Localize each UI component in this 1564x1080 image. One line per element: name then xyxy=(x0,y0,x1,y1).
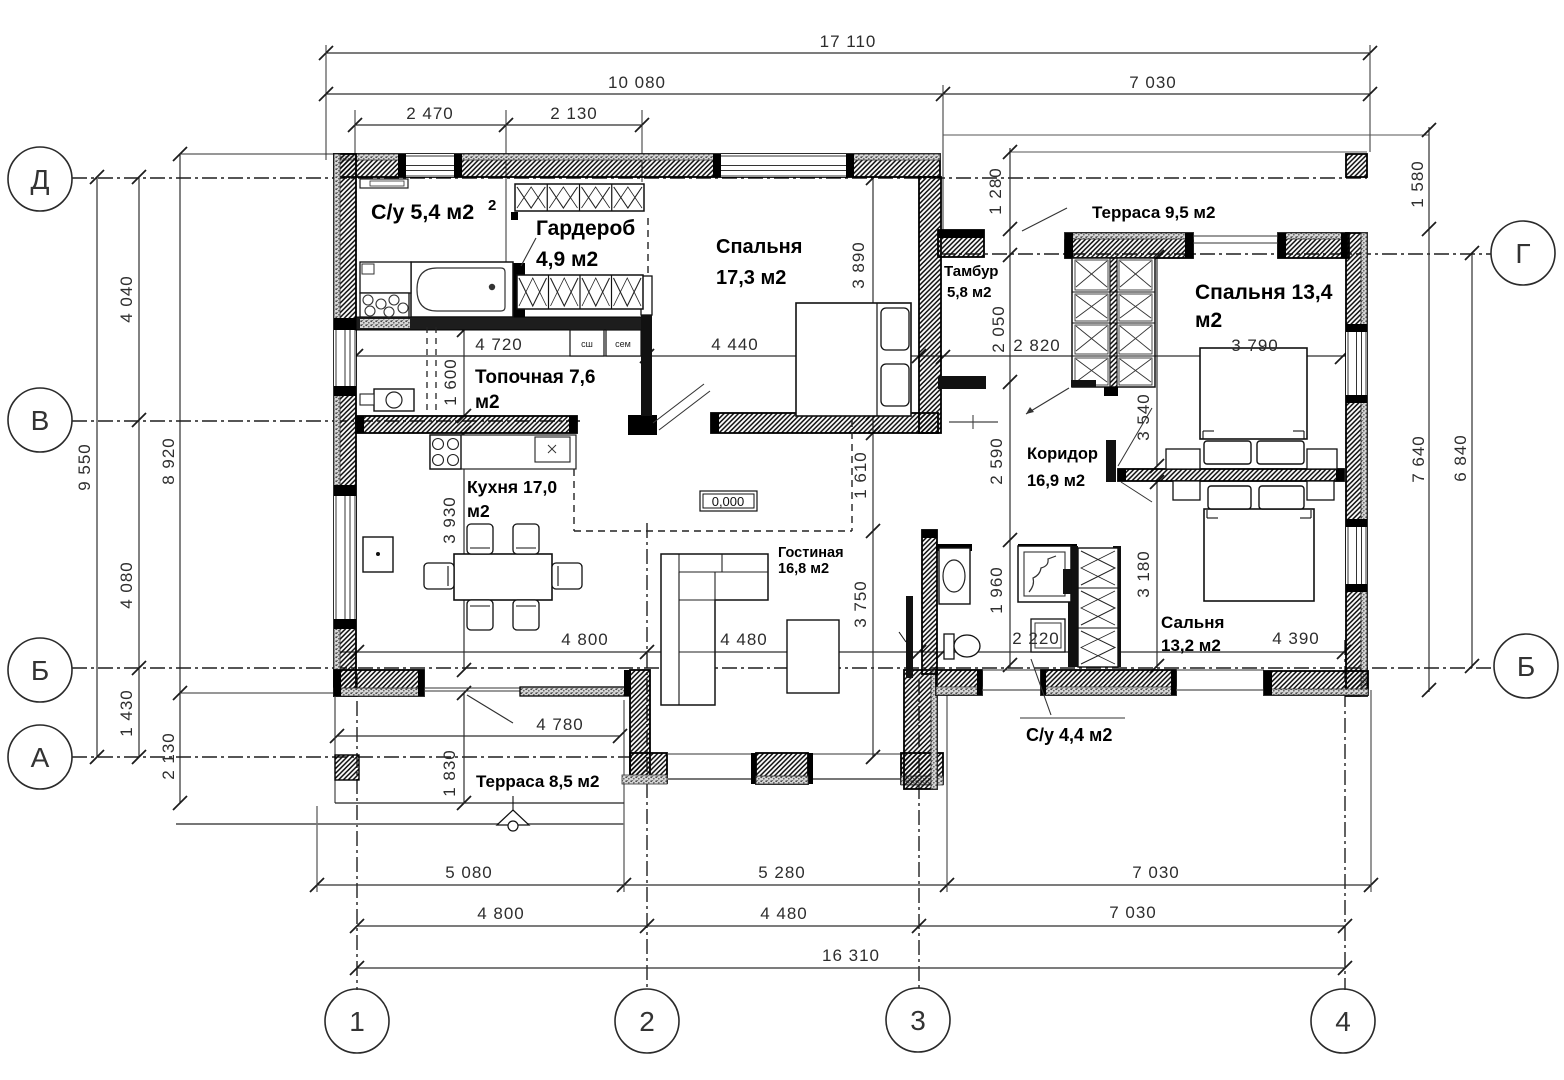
door pier at bedroom 17.3 door xyxy=(628,415,657,435)
dimension 4 800 / 4 480 / 2 220 / 4 390 (y=652) xyxy=(340,651,1346,653)
living-room east wall xyxy=(904,670,937,789)
svg-text:1: 1 xyxy=(349,1006,365,1037)
south wall of SU5.4/garderob (dark band) xyxy=(356,317,647,330)
toilet WC4.4 xyxy=(944,634,954,659)
svg-text:Спальня: Спальня xyxy=(716,236,802,258)
svg-text:2: 2 xyxy=(488,197,496,214)
svg-text:5 280: 5 280 xyxy=(758,863,806,882)
svg-text:4 040: 4 040 xyxy=(117,275,136,323)
living-room south wall left corner xyxy=(630,753,667,783)
axis line 4 (vertical) xyxy=(1344,640,1346,990)
bedside table right (13.4) xyxy=(1307,449,1337,469)
svg-text:7 030: 7 030 xyxy=(1109,903,1157,922)
svg-text:1 600: 1 600 xyxy=(441,358,460,406)
bathtub xyxy=(411,262,513,317)
axis line A (horizontal) xyxy=(72,756,632,758)
svg-text:Б: Б xyxy=(31,655,49,686)
garderob east dashed boundary xyxy=(647,218,649,276)
svg-text:4 480: 4 480 xyxy=(760,904,808,923)
svg-text:4 780: 4 780 xyxy=(536,715,584,734)
svg-text:2 590: 2 590 xyxy=(987,437,1006,485)
dimension 3 890 / 1 610 / 3 750 (x=873) xyxy=(872,178,874,757)
right exterior wall (axis 4) xyxy=(1346,233,1367,696)
cupboard box s-sh xyxy=(570,330,604,356)
bedroom 17.3 south wall (axis V) xyxy=(711,413,938,433)
bottom wall right building segment 2 xyxy=(1041,670,1176,695)
shelf under SU window xyxy=(360,179,408,188)
fridge xyxy=(363,537,393,572)
door swing near shaft xyxy=(1026,388,1069,414)
tambour north wall xyxy=(938,230,984,257)
axis circle B (right) xyxy=(1494,634,1558,698)
dimension 8 920 / 2 130 (left) xyxy=(179,154,181,803)
svg-text:Терраса 9,5 м2: Терраса 9,5 м2 xyxy=(1092,203,1215,222)
svg-text:9 550: 9 550 xyxy=(75,443,94,491)
top exterior wall (axis D) xyxy=(334,154,940,177)
svg-text:6 840: 6 840 xyxy=(1451,434,1470,482)
svg-text:Топочная 7,6: Топочная 7,6 xyxy=(475,367,595,388)
WC 4.4 north wall xyxy=(936,544,972,551)
svg-text:3 890: 3 890 xyxy=(849,241,868,289)
boiler xyxy=(374,389,414,411)
svg-text:2 130: 2 130 xyxy=(550,104,598,123)
svg-text:сем: сем xyxy=(615,339,631,349)
right exterior wall top corner block xyxy=(1346,154,1367,177)
svg-text:1 580: 1 580 xyxy=(1408,160,1427,208)
svg-text:1 960: 1 960 xyxy=(987,566,1006,614)
kitchen/boiler north wall (axis V) xyxy=(356,416,577,433)
chair 3 xyxy=(467,600,493,630)
svg-text:3 540: 3 540 xyxy=(1134,393,1153,441)
dimension 4 040 / 4 080 / 1 430 (left) xyxy=(138,177,140,757)
shower cabin xyxy=(1018,546,1071,602)
kitchen sink xyxy=(535,437,570,462)
bed bedroom 17.3 xyxy=(796,303,911,416)
bedside table left (salnya) xyxy=(1173,481,1200,500)
svg-text:Спальня 13,4: Спальня 13,4 xyxy=(1195,281,1333,304)
svg-text:1 430: 1 430 xyxy=(117,689,136,737)
dimension 4 720 / 4 440 / 2 820 / 3 790 (y=356) xyxy=(340,355,1346,357)
terrace 8.5 outline xyxy=(334,696,336,803)
roof overhang lines (top right) xyxy=(943,134,1429,136)
svg-text:Терраса 8,5 м2: Терраса 8,5 м2 xyxy=(476,772,599,791)
axis circle V (left) xyxy=(8,388,72,452)
svg-text:3: 3 xyxy=(910,1005,926,1036)
washbasin cabinet SU5.4 xyxy=(360,262,411,293)
svg-text:А: А xyxy=(31,742,50,773)
svg-text:4 440: 4 440 xyxy=(711,335,759,354)
svg-text:1 830: 1 830 xyxy=(440,749,459,797)
left exterior wall (axis 1) xyxy=(334,154,356,696)
bedroom 17.3 east wall xyxy=(919,177,941,433)
svg-text:Кухня 17,0: Кухня 17,0 xyxy=(467,477,557,497)
axis line 3 (vertical) xyxy=(918,680,920,990)
dimension 1 280 / 2 050 / 2 590 / 1 960 (x=1010) xyxy=(1009,148,1011,668)
corridor/bedroom partition wall xyxy=(1118,469,1344,481)
dimension 4 780 with leader xyxy=(337,735,620,737)
leader garderob xyxy=(521,238,536,266)
chair 2 xyxy=(513,524,539,554)
living-room south wall pier xyxy=(756,753,808,784)
dimension 9 550 (left) xyxy=(96,177,98,757)
bottom wall kitchen (axis B) xyxy=(334,670,424,696)
bottom wall right building segment 3 xyxy=(1264,671,1368,695)
axis line G (horizontal) xyxy=(940,253,1491,255)
dimension line 2 470 / 2 130 xyxy=(355,124,642,126)
wall between living room and WC (TV wall) xyxy=(922,530,937,674)
svg-text:4 800: 4 800 xyxy=(561,630,609,649)
level mark 0.000 xyxy=(700,491,757,511)
chair 6 xyxy=(552,563,582,589)
svg-text:С/у 4,4 м2: С/у 4,4 м2 xyxy=(1026,725,1112,745)
window in bottom wall (WC) xyxy=(982,669,1041,671)
svg-text:5 080: 5 080 xyxy=(445,863,493,882)
coffee table xyxy=(787,620,839,693)
svg-text:17,3 м2: 17,3 м2 xyxy=(716,267,786,289)
WC 4.4 east wall xyxy=(1068,546,1078,667)
svg-text:7 030: 7 030 xyxy=(1132,863,1180,882)
svg-text:4 720: 4 720 xyxy=(475,335,523,354)
chimney dashed lines xyxy=(426,327,428,411)
corridor wardrobe zigzag xyxy=(1078,548,1118,667)
axis line D (horizontal) xyxy=(72,177,1367,179)
svg-text:4 800: 4 800 xyxy=(477,904,525,923)
garderob east wall xyxy=(641,276,652,315)
svg-text:Гостиная: Гостиная xyxy=(778,545,844,561)
leader terrace 9.5 xyxy=(1022,208,1067,231)
ventilation shaft with cross bracing xyxy=(1072,258,1155,387)
svg-text:2 050: 2 050 xyxy=(989,305,1008,353)
dimension 4 800 / 4 480 / 7 030 (bottom row2) xyxy=(357,925,1345,927)
salnya west wall xyxy=(1113,546,1121,667)
bedside table right (salnya) xyxy=(1307,481,1334,500)
svg-text:3 930: 3 930 xyxy=(440,496,459,544)
svg-text:2 130: 2 130 xyxy=(159,732,178,780)
terrace door threshold xyxy=(424,687,520,689)
svg-text:Гардероб: Гардероб xyxy=(536,217,635,240)
terrace pillar xyxy=(335,755,359,780)
svg-text:4 390: 4 390 xyxy=(1272,629,1320,648)
dimension 3 540 / 3 180 (x=1157) xyxy=(1156,257,1158,466)
cupboard box sem xyxy=(606,330,641,356)
axis circle 3 (bottom) xyxy=(886,988,950,1052)
terrace step wall xyxy=(520,687,630,696)
svg-text:1 610: 1 610 xyxy=(851,451,870,499)
svg-text:17 110: 17 110 xyxy=(820,32,877,51)
svg-text:4 080: 4 080 xyxy=(117,561,136,609)
svg-text:3 180: 3 180 xyxy=(1134,550,1153,598)
living-room south window B xyxy=(813,753,901,755)
dimension 1 580 / 7 640 (x=1429) xyxy=(1428,127,1430,692)
terrace south wall segment 2 xyxy=(1278,233,1349,258)
chair 5 xyxy=(424,563,454,589)
svg-text:Сальня: Сальня xyxy=(1161,613,1224,632)
dining table xyxy=(454,554,552,600)
svg-text:16,9 м2: 16,9 м2 xyxy=(1027,472,1085,490)
svg-text:16,8 м2: 16,8 м2 xyxy=(778,561,829,577)
axis circle 2 (bottom) xyxy=(615,989,679,1053)
axis circle A (left) xyxy=(8,725,72,789)
svg-text:4: 4 xyxy=(1335,1006,1351,1037)
dimension 5 080 / 5 280 / 7 030 (bottom) xyxy=(317,884,1371,886)
svg-text:С/у 5,4 м2: С/у 5,4 м2 xyxy=(371,200,474,224)
axis circle 1 (bottom) xyxy=(325,989,389,1053)
svg-text:Г: Г xyxy=(1515,238,1530,269)
tambour door leaf mark xyxy=(949,421,998,423)
living-room west wall xyxy=(630,670,650,783)
terrace south wall segment 1 xyxy=(1065,233,1193,258)
living-room south window A xyxy=(667,753,756,755)
svg-text:Д: Д xyxy=(31,164,50,195)
svg-text:10 080: 10 080 xyxy=(608,73,666,92)
bed bedroom 13.4 xyxy=(1200,348,1307,439)
terrace entrance flag xyxy=(497,810,529,825)
tambour south wall xyxy=(938,376,986,389)
svg-text:В: В xyxy=(31,405,50,436)
svg-text:2 220: 2 220 xyxy=(1012,629,1060,648)
dimension 1 600 / 3 930 / 1 830 (x=464) xyxy=(463,320,465,416)
cabinet WC4.4 xyxy=(1031,619,1065,652)
svg-text:3 790: 3 790 xyxy=(1231,336,1279,355)
bottom wall right building segment 1 xyxy=(936,670,982,695)
axis circle G (right) xyxy=(1491,221,1555,285)
wall between SU 5.4 and garderob xyxy=(511,212,518,220)
TV panel xyxy=(906,596,913,678)
chair 1 xyxy=(467,524,493,554)
dimension line 17 110 (top) xyxy=(326,52,1370,54)
washbasin WC4.4 xyxy=(939,548,970,604)
window in bottom wall (salnya) xyxy=(1176,669,1264,671)
bed salnya 13.2 xyxy=(1204,509,1314,601)
dimension 16 310 (bottom) xyxy=(357,967,1345,969)
corridor door leaf xyxy=(1106,440,1116,482)
svg-text:м2: м2 xyxy=(1195,309,1222,332)
bedroom 17.3 door swing xyxy=(653,384,704,423)
svg-text:4 480: 4 480 xyxy=(720,630,768,649)
axis line V (horizontal) xyxy=(72,420,580,422)
svg-text:сш: сш xyxy=(581,339,593,349)
svg-text:2 470: 2 470 xyxy=(406,104,454,123)
kitchen counter xyxy=(430,435,576,469)
svg-text:м2: м2 xyxy=(467,501,490,521)
svg-text:5,8 м2: 5,8 м2 xyxy=(947,284,991,301)
axis line 1 (vertical) xyxy=(356,675,358,990)
bedside table left (13.4) xyxy=(1166,449,1200,469)
corner sofa xyxy=(661,554,768,705)
axis circle D (left) xyxy=(8,147,72,211)
svg-text:16 310: 16 310 xyxy=(822,946,880,965)
axis circle B (left) xyxy=(8,638,72,702)
chair 4 xyxy=(513,600,539,630)
svg-text:7 030: 7 030 xyxy=(1129,73,1177,92)
open plan dashed boundary xyxy=(573,469,575,531)
wardrobe closet bottom (garderob) xyxy=(517,275,643,309)
terrace opening lines xyxy=(1193,235,1278,237)
wardrobe closet top (garderob) xyxy=(515,184,644,211)
svg-text:13,2 м2: 13,2 м2 xyxy=(1161,636,1221,655)
svg-text:м2: м2 xyxy=(475,392,500,413)
svg-text:8 920: 8 920 xyxy=(159,437,178,485)
kitchen stove xyxy=(430,435,461,469)
svg-text:4,9 м2: 4,9 м2 xyxy=(536,248,598,271)
axis line 2 (vertical) xyxy=(646,523,648,990)
living-room south wall right corner xyxy=(901,753,943,784)
svg-text:Б: Б xyxy=(1517,651,1535,682)
svg-text:0,000: 0,000 xyxy=(712,494,745,509)
leader WC 4.4 xyxy=(1031,659,1051,715)
svg-text:Тамбур: Тамбур xyxy=(944,263,998,280)
svg-text:1 280: 1 280 xyxy=(986,167,1005,215)
dimension 6 840 (x=1472) xyxy=(1471,253,1473,668)
svg-text:7 640: 7 640 xyxy=(1409,435,1428,483)
svg-text:Коридор: Коридор xyxy=(1027,445,1098,463)
svg-text:3 750: 3 750 xyxy=(851,580,870,628)
axis line B (horizontal) xyxy=(72,667,1494,669)
svg-text:2: 2 xyxy=(639,1006,655,1037)
svg-text:2 820: 2 820 xyxy=(1013,336,1061,355)
dimension line 10 080 / 7 030 xyxy=(326,93,1370,95)
axis circle 4 (bottom) xyxy=(1311,989,1375,1053)
